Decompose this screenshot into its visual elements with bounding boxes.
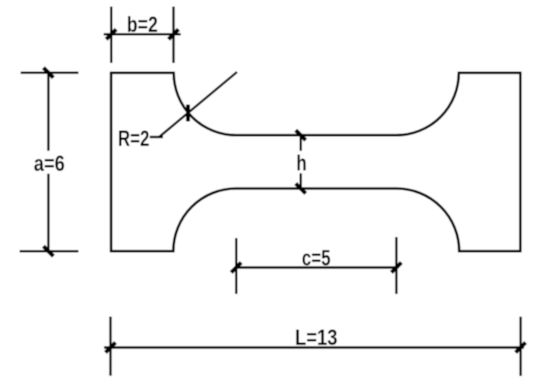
radius leader R=2 : horizontal segment bbox=[150, 136, 163, 138]
dimension L=13 : dimension line bbox=[104, 346, 524, 348]
dimension h : tick bottom bbox=[296, 184, 306, 194]
radius leader R=2 : tick on arc bbox=[186, 105, 190, 122]
dimension a=6 : extension line bottom bbox=[20, 250, 79, 252]
dimension b=2 : tick left bbox=[106, 29, 116, 39]
svg-text:L=13: L=13 bbox=[295, 325, 338, 350]
dimension c=5 : extension line right bbox=[395, 237, 397, 294]
dimension L=13 : extension line right bbox=[519, 317, 521, 376]
dimension a=6 : tick bottom bbox=[43, 246, 53, 256]
svg-text:h: h bbox=[296, 151, 307, 176]
svg-text:c=5: c=5 bbox=[302, 246, 331, 271]
dimension h : dimension line upper segment bbox=[300, 135, 302, 151]
dimension a=6 : dimension line lower segment bbox=[47, 174, 49, 254]
svg-text:a=6: a=6 bbox=[34, 151, 65, 176]
dimension L=13 : tick left bbox=[106, 343, 116, 353]
dimension a=6 : dimension line upper segment bbox=[47, 71, 49, 151]
radius leader R=2 : diagonal leader line bbox=[160, 72, 238, 137]
dimension c=5 : tick right bbox=[391, 263, 401, 273]
dimension b=2 : dimension line bbox=[104, 33, 181, 35]
part outline (dog-bone specimen) bbox=[111, 73, 520, 251]
dimension a=6 : extension line top bbox=[21, 71, 79, 73]
svg-text:b=2: b=2 bbox=[127, 12, 158, 37]
dimension c=5 : tick left bbox=[231, 263, 241, 273]
dimension b=2 : extension line right bbox=[172, 7, 174, 64]
dimension a=6 : tick top bbox=[43, 68, 53, 78]
dimension c=5 : extension line left bbox=[235, 238, 237, 294]
svg-text:R=2: R=2 bbox=[118, 126, 150, 151]
dimension c=5 : dimension line bbox=[235, 266, 398, 268]
dimension L=13 : tick right bbox=[516, 343, 526, 353]
dimension b=2 : extension line left bbox=[110, 7, 112, 64]
dimension h : tick top bbox=[296, 130, 306, 140]
dimension h : dimension line lower segment bbox=[300, 173, 302, 188]
dimension L=13 : extension line left bbox=[109, 317, 111, 376]
dimension b=2 : tick right bbox=[169, 29, 179, 39]
